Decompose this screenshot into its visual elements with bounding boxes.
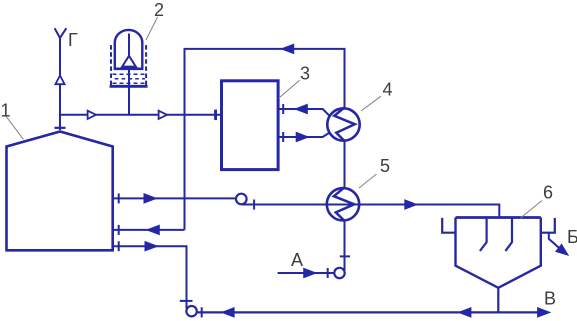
svg-text:1: 1: [1, 100, 11, 120]
svg-text:Г: Г: [68, 30, 78, 50]
svg-text:6: 6: [543, 183, 553, 203]
svg-text:А: А: [291, 250, 303, 270]
svg-text:5: 5: [380, 156, 390, 176]
svg-text:2: 2: [154, 0, 164, 20]
svg-text:В: В: [544, 288, 556, 308]
svg-text:4: 4: [383, 80, 393, 100]
svg-text:3: 3: [300, 64, 310, 84]
svg-text:Б: Б: [567, 227, 577, 247]
